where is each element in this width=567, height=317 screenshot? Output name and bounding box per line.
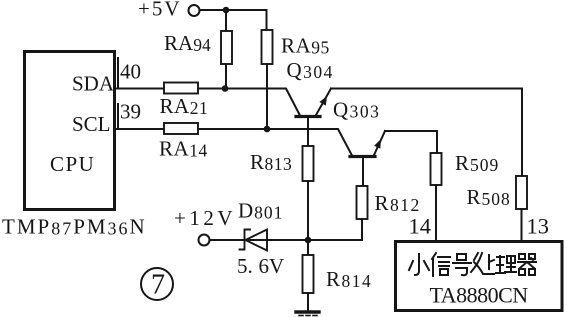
svg-text:R813: R813 [250,150,292,174]
svg-text:40: 40 [120,60,141,84]
wire SCL from CPU to RA14 [116,128,164,130]
svg-text:SDA: SDA [72,72,115,96]
resistor R812 [357,186,368,219]
svg-text:+5V: +5V [138,0,182,21]
node junction SCL/RA95 [264,126,271,133]
wire R814 top lead [307,240,309,255]
CPU box U1 [25,52,115,210]
svg-text:TA8880CN: TA8880CN [430,283,529,308]
IC box TA8880CN [396,242,563,311]
svg-text:+12V: +12V [174,206,236,230]
svg-text:39: 39 [120,100,141,124]
wire R509 to pin 14 [435,185,437,240]
terminal +5V [189,5,200,16]
wire R814 bottom lead [307,293,309,311]
wire RA95 bottom lead [266,64,268,129]
node junction SDA/RA94 [222,85,229,92]
resistor R814 [303,255,314,293]
resistor RA21 [164,83,198,94]
resistor RA14 [164,123,198,134]
pin 39 tick [117,104,119,129]
diode D801 zener cathode bar [240,230,251,250]
svg-text:5.6V: 5.6V [237,254,284,278]
transistor Q304 emitter arrowhead [319,96,327,106]
svg-text:RA14: RA14 [159,137,208,161]
svg-text:CPU: CPU [50,152,95,176]
resistor R509 [431,153,442,185]
node junction 12V rail [305,237,312,244]
resistor RA94 [221,31,232,64]
circled figure number 7 [141,268,173,301]
wire R812 bottom to node [308,219,362,240]
svg-text:TMP87PM36N: TMP87PM36N [2,215,147,239]
pin 40 tick [117,58,119,89]
wire RA94 bottom lead [225,64,227,89]
svg-text:D801: D801 [238,199,283,223]
wire Q303 base lead [362,158,364,186]
svg-text:Q303: Q303 [333,98,380,122]
resistor R813 [303,146,314,181]
wire top rail Q304 emitter to R508 [331,89,522,177]
transistor Q303 emitter with arrow [374,131,385,155]
svg-text:RA21: RA21 [160,94,209,118]
svg-text:13: 13 [527,214,550,239]
svg-text:RA94: RA94 [164,31,211,55]
svg-text:R508: R508 [467,185,511,209]
resistor RA95 [262,30,273,64]
svg-text:RA95: RA95 [281,34,330,58]
svg-text:R814: R814 [326,267,372,291]
svg-text:7: 7 [151,270,165,301]
wire R813 bottom lead [307,181,309,240]
wire R508 to pin 13 [521,209,523,240]
wire SDA from CPU to RA21 [116,88,164,90]
wire Q304 base lead [307,118,309,146]
transistor Q303 base bar [350,155,375,158]
svg-text:R812: R812 [375,191,421,215]
svg-text:SCL: SCL [72,112,111,136]
wire Q303 emitter to R509 [385,131,437,153]
transistor Q304 base bar [296,115,320,118]
svg-text:R509: R509 [455,151,499,175]
svg-text:14: 14 [409,214,432,239]
wire +5V rail [200,9,267,11]
svg-text:Q304: Q304 [287,58,334,82]
wire +12V to node [210,239,309,241]
ground [296,312,319,316]
label 小信号处理器 (hand drawn strokes) [409,253,536,276]
node junction +5V/RA94 [223,7,230,14]
terminal +12V [199,235,210,246]
wire SDA node to Q304 [198,89,300,116]
transistor Q303 emitter arrowhead [374,139,381,149]
diode D801 triangle [246,230,268,251]
transistor Q304 emitter with arrow [316,89,331,116]
wire RA94 top lead [225,10,227,31]
resistor R508 [516,176,527,209]
wire SCL node to Q303 [198,129,352,156]
wire RA95 top lead [266,10,268,30]
